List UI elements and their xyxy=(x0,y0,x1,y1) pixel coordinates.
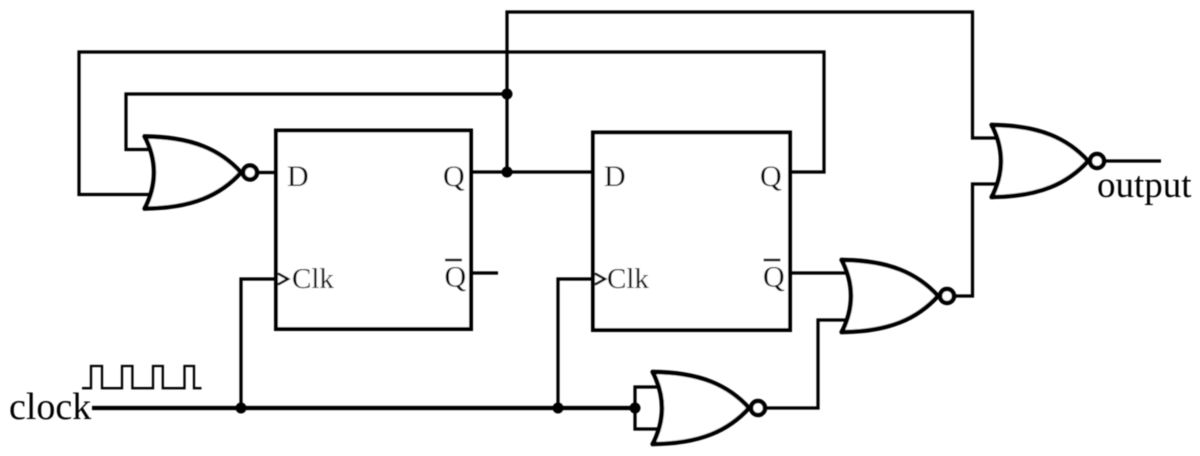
svg-text:D: D xyxy=(287,160,309,193)
svg-text:Q: Q xyxy=(760,160,782,193)
svg-text:Clk: Clk xyxy=(607,263,649,295)
svg-text:clock: clock xyxy=(9,386,91,428)
svg-text:Q: Q xyxy=(445,261,467,294)
svg-text:output: output xyxy=(1097,165,1192,206)
svg-text:D: D xyxy=(604,160,626,193)
svg-text:Clk: Clk xyxy=(292,263,334,295)
svg-text:Q: Q xyxy=(763,261,785,294)
svg-text:Q: Q xyxy=(443,160,465,193)
